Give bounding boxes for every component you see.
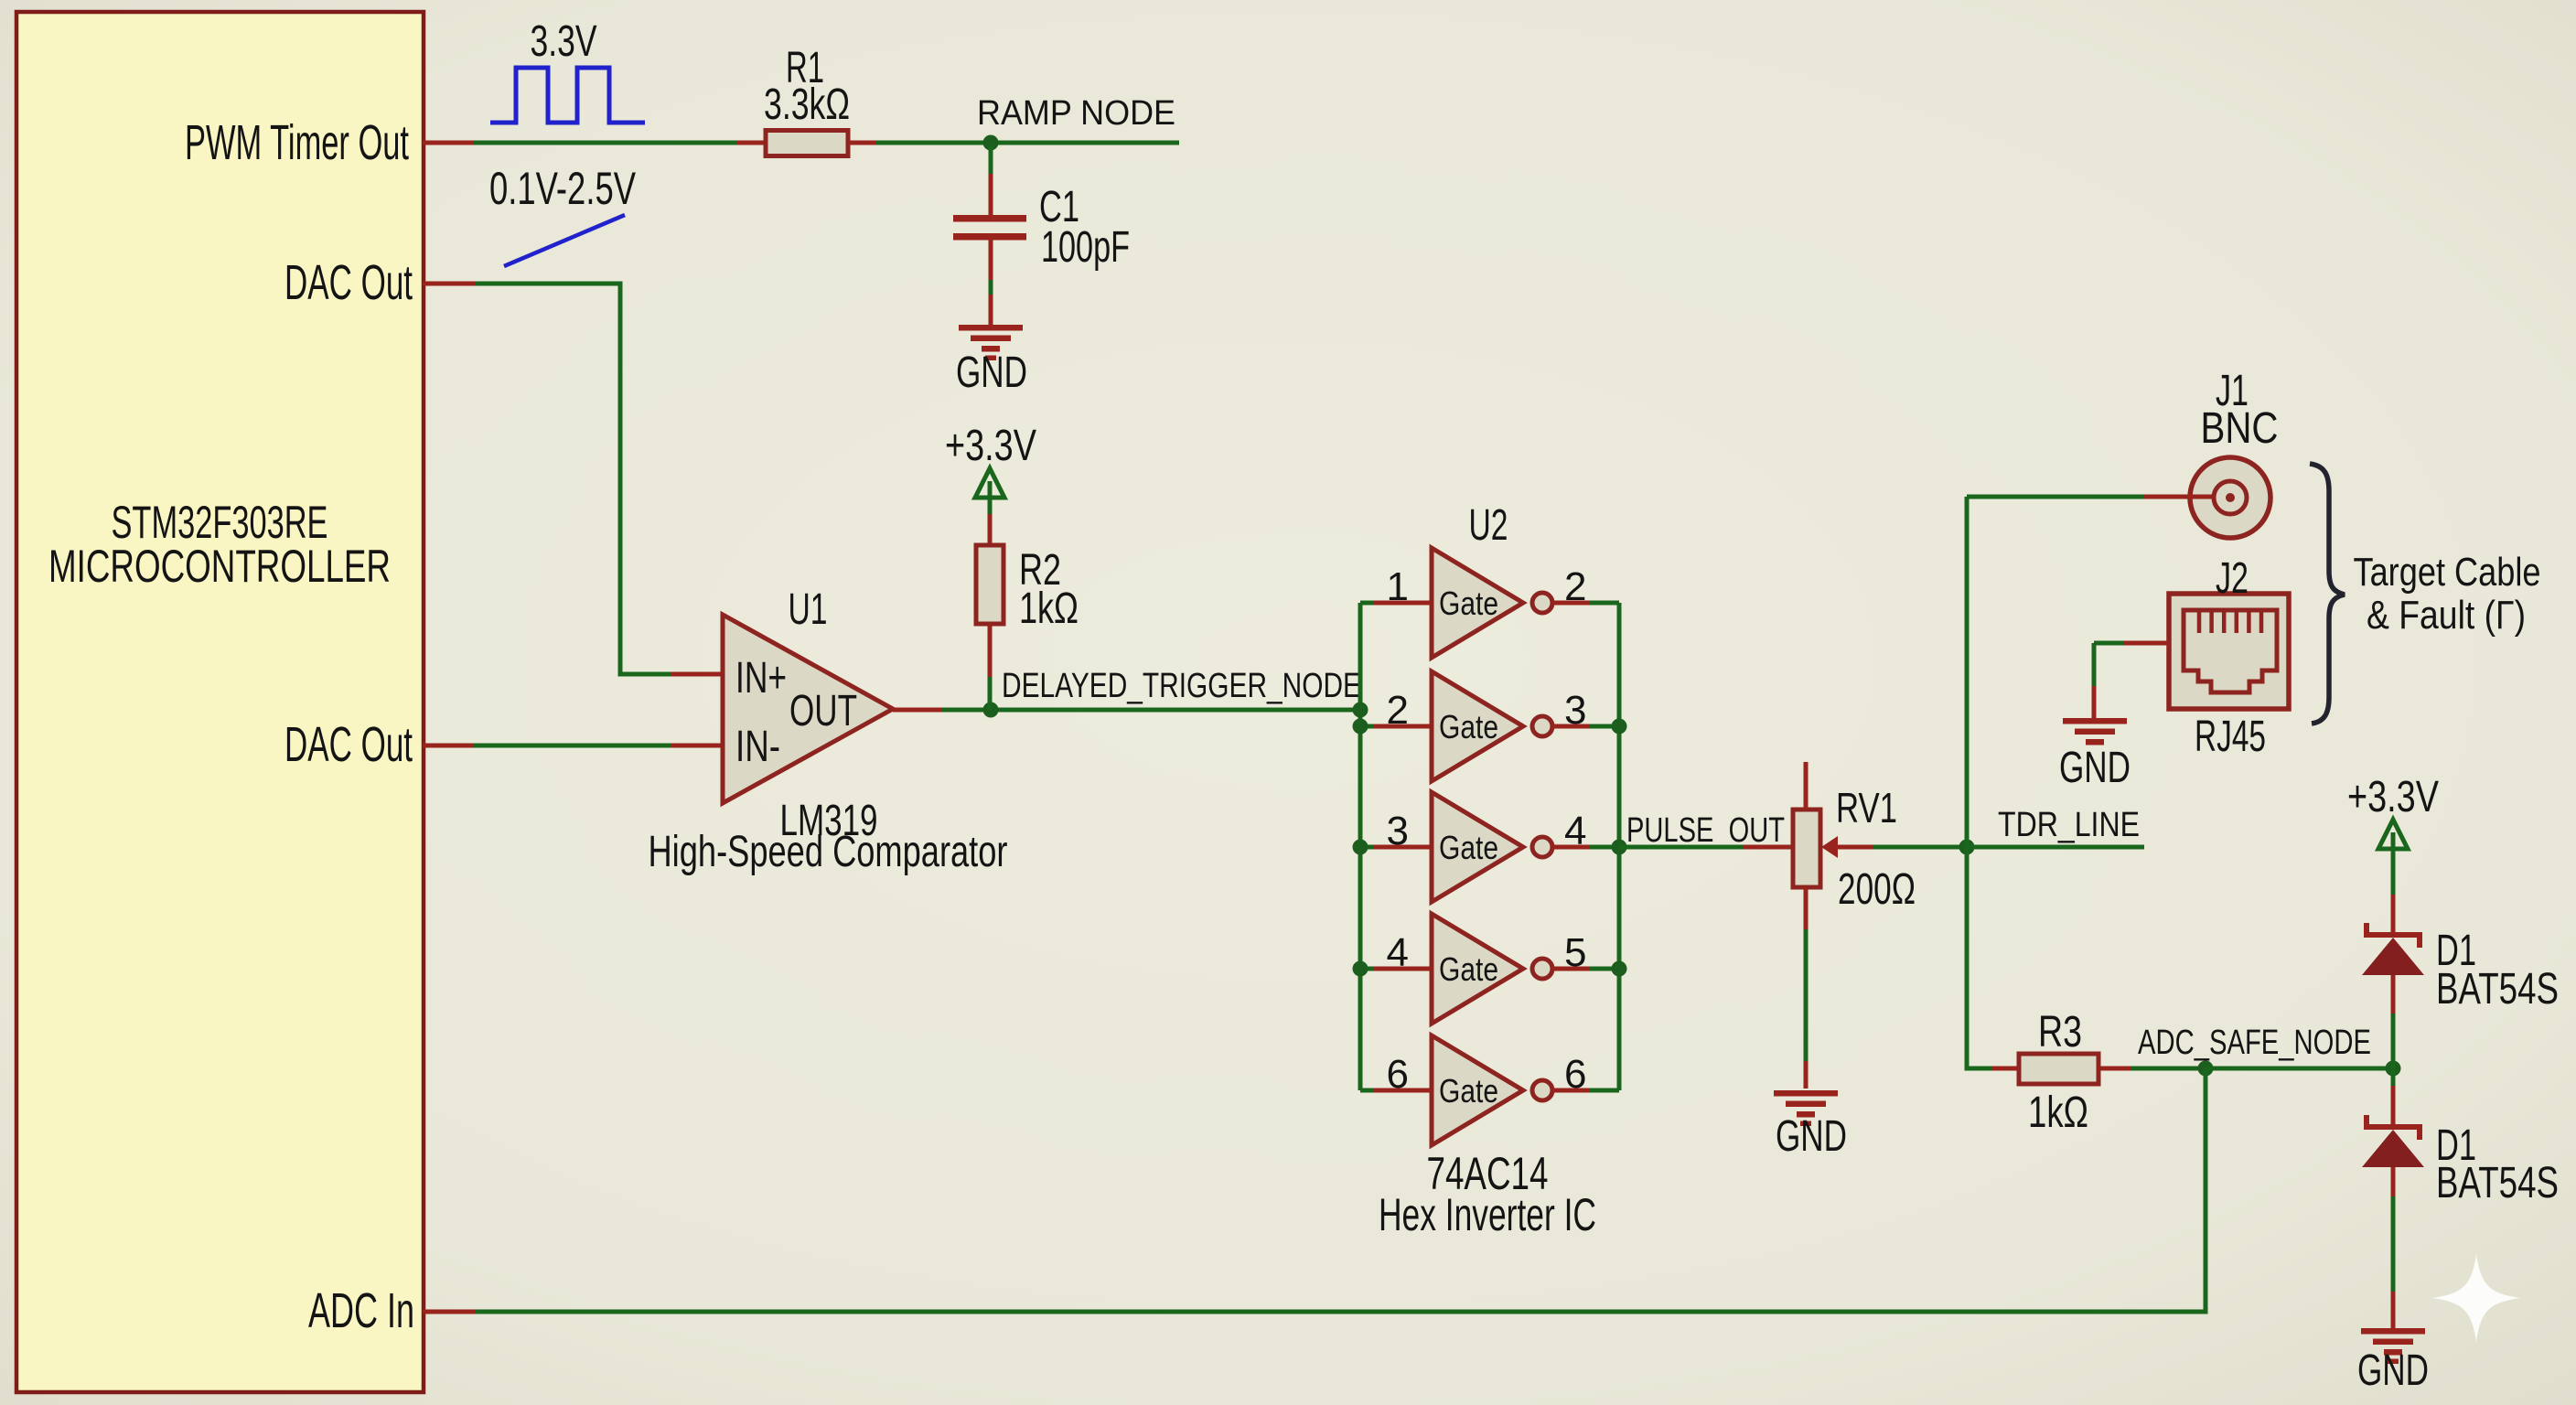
svg-text:High-Speed Comparator: High-Speed Comparator: [649, 828, 1008, 876]
wire D1 bottom to GND: [2391, 1167, 2396, 1196]
ramp icon 0.1V-2.5V: [504, 215, 625, 266]
wire ADC_SAFE_NODE to diodes: [2206, 1067, 2393, 1071]
wire R3 to ADC_SAFE_NODE: [2098, 1067, 2131, 1071]
resistor R3 1k: [2019, 1054, 2098, 1084]
diode D1 BAT54S (top): [2367, 923, 2420, 948]
svg-text:3.3kΩ: 3.3kΩ: [764, 80, 850, 129]
wire inverter input bus: [1358, 603, 1363, 1090]
svg-text:+3.3V: +3.3V: [945, 422, 1036, 470]
node output bus junction gate2: [1612, 719, 1627, 735]
svg-text:IN-: IN-: [735, 723, 780, 771]
brace Target Cable and Fault: [2310, 464, 2345, 724]
svg-text:Gate: Gate: [1439, 950, 1498, 988]
wire RV1 bottom to GND: [1804, 887, 1809, 929]
inverter gate U2D pin 4 to 5: [1360, 967, 1374, 971]
wire DAC Out 2 to IN-: [473, 744, 671, 748]
wire RJ45 to GND: [2094, 641, 2124, 646]
node TDR_LINE junction: [1959, 840, 1975, 855]
diode D1 BAT54S (bottom): [2367, 1115, 2420, 1140]
svg-text:RV1: RV1: [1836, 784, 1897, 831]
svg-text:3: 3: [1387, 809, 1409, 853]
svg-text:PULSE_OUT: PULSE_OUT: [1626, 811, 1785, 850]
wire U1 OUT stub (red): [893, 708, 942, 713]
wire TDR vertical down to R3: [1965, 847, 1970, 1071]
wire TDR corner to R3: [1967, 1067, 1992, 1071]
svg-text:GND: GND: [2059, 744, 2131, 792]
svg-text:2: 2: [1387, 688, 1409, 733]
sparkle watermark: [2432, 1254, 2520, 1342]
connector J2 RJ45: [2169, 594, 2289, 709]
svg-text:ADC_SAFE_NODE: ADC_SAFE_NODE: [2138, 1024, 2371, 1062]
svg-text:DAC Out: DAC Out: [284, 255, 413, 310]
wire junction to D1 bottom: [2391, 1068, 2396, 1086]
wire inverter output bus: [1617, 603, 1622, 1090]
svg-text:PWM Timer Out: PWM Timer Out: [185, 115, 409, 170]
wire R1 right stub (red): [848, 141, 876, 145]
inverter gate U2E pin 6 to 6: [1360, 1089, 1374, 1093]
wire RV1 wiper to TDR junction: [1838, 845, 1873, 850]
svg-text:IN+: IN+: [735, 654, 787, 702]
svg-text:BAT54S: BAT54S: [2436, 965, 2559, 1014]
wire D1 top to junction: [2391, 975, 2396, 1014]
connector J1 BNC: [2190, 457, 2270, 538]
svg-text:6: 6: [1387, 1052, 1409, 1097]
wire RAMP NODE down to C1: [989, 145, 993, 174]
svg-text:1kΩ: 1kΩ: [1019, 585, 1079, 633]
svg-text:Gate: Gate: [1439, 1072, 1498, 1110]
microcontroller U3 STM32F303RE block: [16, 12, 424, 1392]
inverter gate U2C pin 3 to 4: [1360, 845, 1374, 850]
svg-text:Gate: Gate: [1439, 585, 1498, 622]
op-amp comparator U1 LM319: [723, 615, 893, 803]
wire DAC Out 1 stub (red): [423, 282, 475, 286]
wire ADC_SAFE_NODE down: [2204, 1068, 2208, 1314]
wire DAC Out 2 stub (red): [423, 744, 473, 748]
node R2 junction: [983, 702, 999, 718]
svg-text:& Fault (Γ): & Fault (Γ): [2367, 593, 2526, 638]
node ADC_SAFE_NODE junction: [2198, 1061, 2214, 1077]
svg-text:RJ45: RJ45: [2195, 713, 2266, 761]
node output bus junction gate4: [1612, 961, 1627, 977]
svg-text:1: 1: [1387, 564, 1409, 609]
svg-text:100pF: 100pF: [1041, 223, 1130, 272]
wire C1 to GND: [989, 240, 993, 280]
svg-text:RAMP NODE: RAMP NODE: [977, 94, 1175, 133]
svg-text:U1: U1: [789, 585, 828, 634]
wire +3.3V to D1 top: [2391, 849, 2396, 895]
node bus junction gate2 input: [1353, 719, 1368, 735]
node bus junction gate4 input: [1353, 961, 1368, 977]
wire PWM pin stub (red): [423, 141, 473, 145]
wire to BNC center pin: [1967, 495, 2144, 499]
svg-text:+3.3V: +3.3V: [2347, 773, 2439, 821]
svg-text:BNC: BNC: [2201, 404, 2279, 453]
wire ADC In horizontal: [476, 1310, 2208, 1314]
svg-text:Target Cable: Target Cable: [2354, 550, 2541, 595]
ground symbol below C1: [959, 325, 1023, 331]
wire +3.3V to R2: [988, 498, 993, 514]
svg-text:MICROCONTROLLER: MICROCONTROLLER: [48, 541, 391, 592]
ground symbol below diodes: [2361, 1328, 2425, 1335]
svg-text:J2: J2: [2216, 554, 2249, 603]
svg-text:OUT: OUT: [789, 687, 857, 735]
node PULSE_OUT junction: [1612, 840, 1627, 855]
node diode junction: [2386, 1061, 2401, 1077]
svg-text:GND: GND: [956, 349, 1027, 397]
ground symbol below RJ45: [2063, 718, 2127, 724]
inverter gate U2A pin 1 to 2: [1360, 601, 1374, 606]
svg-text:Gate: Gate: [1439, 829, 1498, 866]
svg-text:DELAYED_TRIGGER_NODE: DELAYED_TRIGGER_NODE: [1002, 667, 1361, 705]
wire R1 to RAMP NODE: [876, 141, 1179, 145]
svg-text:DAC Out: DAC Out: [284, 717, 413, 772]
wire TDR_LINE stub right: [1967, 845, 2144, 850]
wire PWM to R1: [473, 141, 737, 145]
wire U1 OUT to inverter bus: [942, 708, 1360, 713]
resistor R2 1k: [976, 545, 1004, 624]
node bus junction trigger wire: [1353, 702, 1368, 718]
svg-text:0.1V-2.5V: 0.1V-2.5V: [489, 163, 636, 214]
svg-text:TDR_LINE: TDR_LINE: [1998, 806, 2140, 844]
svg-text:1kΩ: 1kΩ: [2028, 1089, 2088, 1137]
resistor R1 3.3k: [766, 131, 848, 156]
square wave icon 3.3V: [490, 68, 645, 123]
wire DAC Out 1 horizontal: [475, 282, 623, 286]
svg-text:4: 4: [1387, 930, 1409, 975]
node bus junction gate3 input: [1353, 840, 1368, 855]
wire R2 to junction: [988, 624, 993, 677]
wire R1 left stub (red): [737, 141, 766, 145]
capacitor C1 100pF: [953, 215, 1026, 222]
inverter gate U2B pin 2 to 3: [1360, 724, 1374, 729]
wire DAC Out 1 vertical: [618, 284, 623, 677]
svg-text:GND: GND: [1776, 1112, 1847, 1161]
ground symbol below RV1: [1774, 1090, 1838, 1097]
svg-text:Hex Inverter IC: Hex Inverter IC: [1379, 1189, 1596, 1240]
wire TDR vertical to BNC: [1965, 497, 1970, 847]
wire to IN+ of U1: [620, 672, 671, 677]
node RAMP NODE junction: [983, 135, 999, 151]
svg-text:U2: U2: [1469, 501, 1508, 550]
svg-text:200Ω: 200Ω: [1838, 865, 1916, 914]
svg-text:Gate: Gate: [1439, 708, 1498, 745]
svg-text:GND: GND: [2357, 1346, 2429, 1395]
svg-text:ADC In: ADC In: [308, 1283, 414, 1338]
wire PULSE_OUT to RV1: [1619, 845, 1744, 850]
svg-text:BAT54S: BAT54S: [2436, 1159, 2559, 1207]
svg-text:3.3V: 3.3V: [531, 17, 597, 66]
svg-text:R3: R3: [2038, 1008, 2082, 1056]
potentiometer RV1 200 ohm: [1793, 810, 1820, 887]
